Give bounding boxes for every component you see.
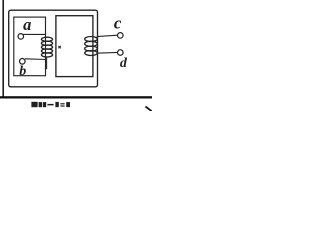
outer frame bbox=[9, 10, 98, 87]
left box bbox=[14, 17, 46, 76]
terminal a bbox=[18, 34, 24, 40]
corner mark bbox=[146, 107, 153, 112]
wire d bbox=[97, 51, 118, 54]
primary coil L1 bbox=[41, 37, 52, 57]
polarity mark x bbox=[58, 46, 60, 48]
coil L1 lower stub bbox=[46, 57, 48, 69]
wire b bbox=[25, 58, 46, 61]
core box bbox=[56, 16, 93, 77]
svg-text:a: a bbox=[23, 15, 31, 34]
terminal b bbox=[20, 59, 26, 65]
wire c bbox=[97, 35, 118, 36]
bottom rule bbox=[0, 96, 152, 98]
terminal d bbox=[118, 50, 124, 56]
wire a bbox=[23, 33, 46, 35]
svg-text:d: d bbox=[120, 56, 128, 71]
caption marks bbox=[31, 102, 70, 107]
secondary coil L2 bbox=[85, 37, 98, 56]
svg-text:b: b bbox=[19, 64, 26, 79]
svg-text:c: c bbox=[114, 14, 122, 33]
terminal c bbox=[118, 33, 124, 39]
page left border bbox=[2, 0, 4, 97]
